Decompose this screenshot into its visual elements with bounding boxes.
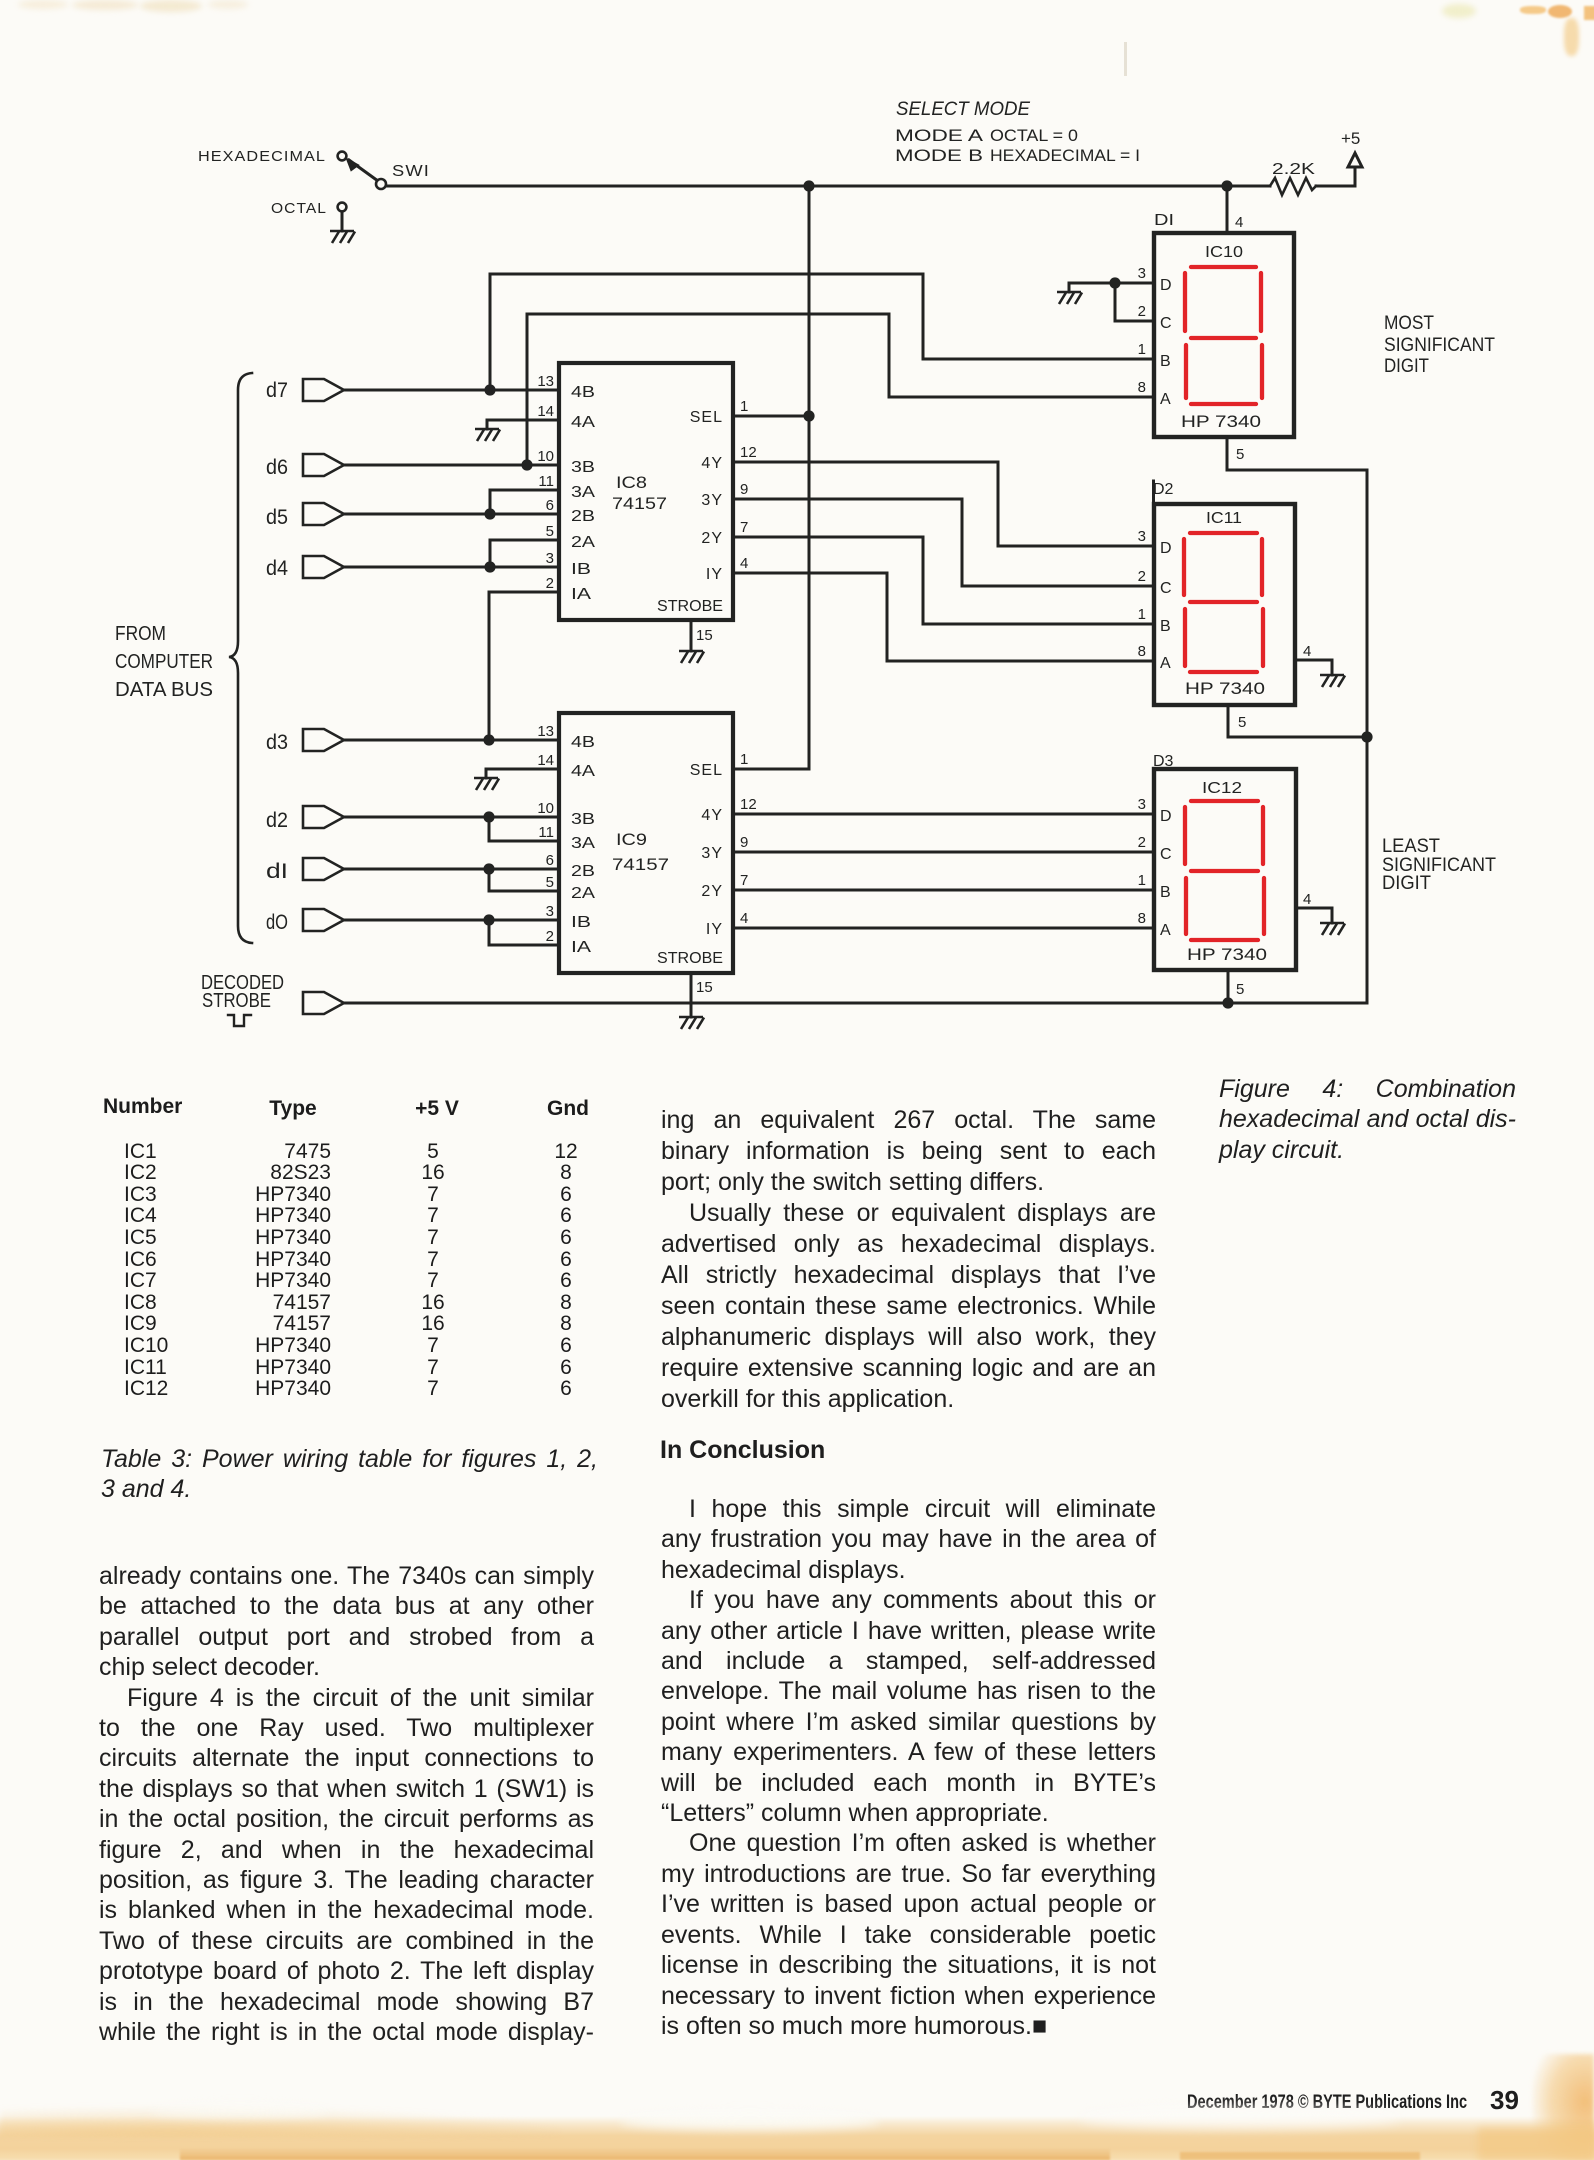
svg-text:8: 8	[1138, 379, 1146, 396]
svg-text:3B: 3B	[571, 811, 595, 828]
svg-text:2: 2	[1138, 568, 1146, 585]
svg-text:SWI: SWI	[392, 163, 430, 180]
svg-text:SEL: SEL	[690, 762, 723, 779]
svg-text:dI: dI	[266, 860, 288, 883]
svg-text:IB: IB	[571, 914, 591, 931]
svg-text:74157: 74157	[612, 855, 669, 874]
svg-text:4B: 4B	[571, 384, 595, 401]
svg-text:3Y: 3Y	[701, 492, 723, 509]
svg-text:2Y: 2Y	[701, 530, 723, 547]
svg-text:4Y: 4Y	[701, 807, 723, 824]
svg-text:d5: d5	[266, 506, 288, 529]
svg-text:3A: 3A	[571, 484, 595, 501]
svg-text:HEXADECIMAL = I: HEXADECIMAL = I	[990, 146, 1140, 165]
svg-text:5: 5	[1236, 981, 1244, 998]
svg-text:SELECT MODE: SELECT MODE	[896, 99, 1030, 120]
svg-text:5: 5	[546, 874, 554, 891]
svg-text:IA: IA	[571, 586, 591, 603]
svg-text:7: 7	[740, 872, 748, 889]
svg-text:B: B	[1160, 618, 1171, 635]
svg-text:DIGIT: DIGIT	[1382, 873, 1431, 894]
svg-text:10: 10	[537, 448, 554, 465]
svg-text:DI: DI	[1154, 212, 1174, 229]
svg-text:4: 4	[1303, 643, 1311, 660]
svg-text:IC12: IC12	[1202, 780, 1242, 797]
svg-text:B: B	[1160, 884, 1171, 901]
svg-text:A: A	[1160, 922, 1171, 939]
svg-text:C: C	[1160, 315, 1172, 332]
svg-text:1: 1	[1138, 872, 1146, 889]
svg-text:1: 1	[740, 751, 748, 768]
svg-text:D2: D2	[1153, 481, 1174, 498]
svg-text:4A: 4A	[571, 763, 595, 780]
svg-text:11: 11	[538, 824, 554, 841]
svg-text:COMPUTER: COMPUTER	[115, 651, 213, 673]
svg-text:SEL: SEL	[690, 409, 723, 426]
svg-text:MODE A: MODE A	[895, 126, 984, 145]
svg-text:5: 5	[546, 523, 554, 540]
svg-text:STROBE: STROBE	[657, 598, 723, 615]
svg-text:2B: 2B	[571, 863, 595, 880]
svg-text:4: 4	[1303, 891, 1311, 908]
svg-text:D: D	[1160, 808, 1172, 825]
svg-text:STROBE: STROBE	[657, 950, 723, 967]
svg-text:FROM: FROM	[115, 623, 166, 645]
svg-text:2: 2	[546, 575, 554, 592]
svg-text:IY: IY	[706, 921, 723, 938]
svg-text:5: 5	[1236, 446, 1244, 463]
svg-text:4A: 4A	[571, 414, 595, 431]
svg-text:5: 5	[1238, 714, 1246, 731]
svg-text:IC10: IC10	[1205, 244, 1243, 261]
svg-text:9: 9	[740, 834, 748, 851]
svg-text:12: 12	[740, 796, 757, 813]
svg-text:8: 8	[1138, 910, 1146, 927]
svg-text:3: 3	[1138, 796, 1146, 813]
svg-text:74157: 74157	[612, 494, 667, 513]
svg-text:DIGIT: DIGIT	[1384, 356, 1429, 377]
svg-text:3: 3	[546, 903, 554, 920]
svg-text:3B: 3B	[571, 459, 595, 476]
svg-text:2: 2	[546, 928, 554, 945]
svg-text:2: 2	[1138, 303, 1146, 320]
svg-text:OCTAL = 0: OCTAL = 0	[990, 126, 1078, 145]
svg-text:STROBE: STROBE	[202, 990, 271, 1012]
svg-text:3: 3	[546, 550, 554, 567]
svg-text:15: 15	[696, 979, 713, 996]
svg-text:4B: 4B	[571, 734, 595, 751]
svg-text:OCTAL: OCTAL	[271, 200, 327, 217]
svg-text:2B: 2B	[571, 508, 595, 525]
svg-text:14: 14	[537, 752, 554, 769]
svg-text:D: D	[1160, 277, 1172, 294]
svg-text:D: D	[1160, 540, 1172, 557]
svg-text:11: 11	[538, 473, 554, 490]
svg-text:IC9: IC9	[616, 830, 647, 849]
svg-text:7: 7	[740, 519, 748, 536]
svg-text:6: 6	[546, 852, 554, 869]
svg-text:d3: d3	[266, 731, 288, 754]
svg-text:13: 13	[537, 373, 554, 390]
svg-text:8: 8	[1138, 643, 1146, 660]
svg-text:d6: d6	[266, 456, 288, 479]
svg-text:9: 9	[740, 481, 748, 498]
svg-text:2.2K: 2.2K	[1272, 161, 1315, 178]
svg-text:HP 7340: HP 7340	[1185, 679, 1265, 698]
svg-text:IA: IA	[571, 939, 591, 956]
svg-text:dO: dO	[266, 911, 288, 934]
svg-text:HP 7340: HP 7340	[1187, 945, 1267, 964]
svg-text:d4: d4	[266, 557, 288, 580]
svg-text:3: 3	[1138, 528, 1146, 545]
svg-text:1: 1	[1138, 341, 1146, 358]
svg-text:IC11: IC11	[1206, 510, 1242, 527]
svg-text:3Y: 3Y	[701, 845, 723, 862]
svg-text:C: C	[1160, 580, 1172, 597]
svg-text:4: 4	[740, 555, 748, 572]
svg-text:1: 1	[1138, 606, 1146, 623]
svg-text:IC8: IC8	[616, 473, 647, 492]
svg-text:SIGNIFICANT: SIGNIFICANT	[1384, 335, 1495, 356]
svg-text:D3: D3	[1153, 753, 1174, 770]
svg-text:1: 1	[740, 398, 748, 415]
svg-text:10: 10	[537, 800, 554, 817]
svg-text:HEXADECIMAL: HEXADECIMAL	[198, 148, 326, 165]
svg-text:LEAST: LEAST	[1382, 836, 1440, 857]
svg-text:A: A	[1160, 655, 1171, 672]
svg-text:2A: 2A	[571, 534, 595, 551]
svg-text:IB: IB	[571, 561, 591, 578]
svg-text:14: 14	[537, 403, 554, 420]
svg-text:4: 4	[740, 910, 748, 927]
svg-text:d2: d2	[266, 809, 288, 832]
svg-text:IY: IY	[706, 566, 723, 583]
svg-text:3: 3	[1138, 265, 1146, 282]
svg-text:MOST: MOST	[1384, 313, 1434, 334]
svg-text:HP 7340: HP 7340	[1181, 412, 1261, 431]
svg-text:2Y: 2Y	[701, 883, 723, 900]
svg-text:C: C	[1160, 846, 1172, 863]
svg-text:MODE B: MODE B	[895, 146, 983, 165]
svg-text:3A: 3A	[571, 835, 595, 852]
svg-text:13: 13	[537, 723, 554, 740]
svg-text:2: 2	[1138, 834, 1146, 851]
svg-text:B: B	[1160, 353, 1171, 370]
svg-text:A: A	[1160, 391, 1171, 408]
svg-text:6: 6	[546, 497, 554, 514]
svg-text:2A: 2A	[571, 885, 595, 902]
svg-text:4Y: 4Y	[701, 455, 723, 472]
svg-text:12: 12	[740, 444, 757, 461]
svg-text:4: 4	[1235, 214, 1243, 231]
svg-text:+5: +5	[1341, 129, 1360, 148]
svg-text:DATA BUS: DATA BUS	[115, 679, 213, 701]
svg-text:15: 15	[696, 627, 713, 644]
svg-text:d7: d7	[266, 379, 288, 402]
